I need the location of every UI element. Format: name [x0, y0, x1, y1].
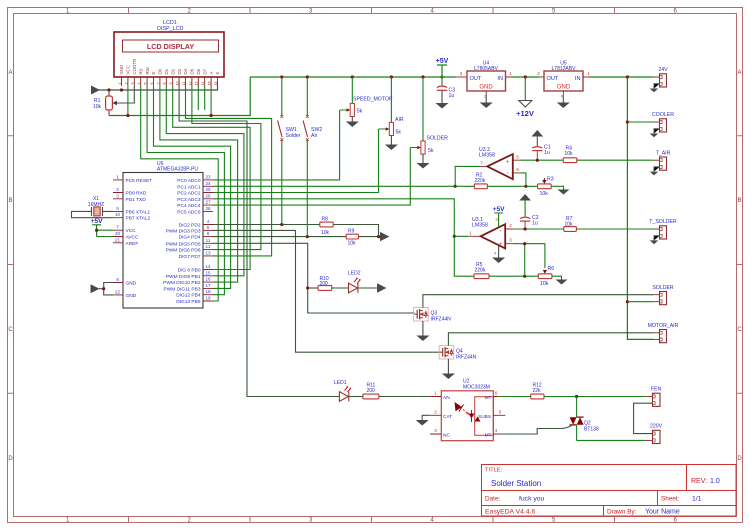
- svg-text:E: E: [151, 72, 156, 75]
- svg-text:CONTR: CONTR: [132, 59, 137, 75]
- wire LCD D0 to PB2: [160, 86, 238, 282]
- svg-text:D1: D1: [164, 68, 169, 74]
- svg-text:REV:: REV:: [691, 478, 707, 485]
- trimmer R6: [538, 266, 554, 287]
- svg-text:CAT: CAT: [443, 414, 452, 420]
- svg-text:R3: R3: [547, 177, 554, 183]
- potentiometer AIR: [379, 77, 404, 150]
- svg-text:D4: D4: [183, 68, 188, 74]
- wire PD3 row to Q4 gate: [213, 230, 441, 352]
- svg-text:1: 1: [434, 391, 437, 396]
- FETS: [414, 295, 653, 379]
- svg-text:SOLDER: SOLDER: [427, 136, 449, 142]
- svg-text:GND: GND: [479, 85, 493, 91]
- connector 24V: [650, 67, 668, 92]
- svg-text:10k: 10k: [565, 151, 574, 157]
- svg-text:AVCC: AVCC: [126, 235, 140, 241]
- connector COOLER: [650, 112, 675, 137]
- svg-text:DISP_LCD: DISP_LCD: [157, 26, 183, 32]
- wire PD2 row to R8: [213, 224, 320, 226]
- svg-text:SPEED_MOTOR: SPEED_MOTOR: [353, 97, 393, 103]
- ground rail under LCD (K/GND net): [93, 86, 218, 90]
- wire R3 to ground: [551, 186, 563, 189]
- svg-text:200: 200: [367, 388, 376, 394]
- svg-text:6: 6: [516, 167, 519, 172]
- svg-text:Drawn By:: Drawn By:: [607, 509, 637, 516]
- resistor R11: [363, 383, 379, 399]
- svg-text:3: 3: [131, 83, 135, 85]
- svg-text:18: 18: [205, 289, 211, 294]
- svg-text:Solder: Solder: [286, 133, 301, 139]
- svg-text:VCC: VCC: [126, 228, 137, 234]
- wire U2 MT6 to R12: [499, 396, 531, 398]
- svg-text:B: B: [8, 198, 12, 204]
- svg-text:L7805ABV: L7805ABV: [474, 66, 499, 72]
- svg-text:C: C: [8, 327, 13, 333]
- svg-text:PWM DIG6 PD6: PWM DIG6 PD6: [166, 248, 201, 254]
- svg-text:13: 13: [195, 82, 199, 86]
- LCD pin numbers: [118, 82, 218, 86]
- Q4 source to ground: [447, 359, 449, 374]
- node SW2 top: [306, 75, 309, 78]
- connector 220V: [646, 424, 663, 444]
- svg-text:LED1: LED1: [334, 380, 347, 386]
- wire A pin to +5V rail: [210, 86, 212, 116]
- node SOLDER top: [421, 75, 424, 78]
- svg-text:1: 1: [469, 230, 472, 235]
- OPAMPS: [453, 130, 653, 287]
- svg-text:200: 200: [320, 281, 329, 287]
- wire Q3 drain to SOLDER pin1: [423, 295, 653, 308]
- svg-text:2: 2: [124, 83, 128, 85]
- svg-text:23: 23: [205, 174, 211, 179]
- LCDBLOCK: [91, 20, 250, 117]
- svg-text:21: 21: [115, 237, 121, 242]
- svg-text:IRFZ44N: IRFZ44N: [456, 355, 477, 361]
- wire U4 IN to U5 OUT with +12V tap: [511, 76, 539, 78]
- svg-text:PWM DIG9 PB1: PWM DIG9 PB1: [166, 274, 201, 280]
- svg-text:PC4 ADC4: PC4 ADC4: [177, 203, 201, 209]
- svg-text:C: C: [737, 327, 742, 333]
- resistor R4: [563, 146, 577, 163]
- optocoupler U2 MOC3023M: [429, 379, 505, 441]
- svg-text:K: K: [215, 72, 220, 75]
- node: R1 top junction: [107, 88, 110, 91]
- svg-text:DIG7 PD7: DIG7 PD7: [179, 254, 201, 260]
- left pin names: [126, 178, 153, 299]
- pins left: [429, 397, 441, 435]
- wire LED1 to R11: [349, 396, 363, 398]
- Q3 source to ground: [422, 321, 424, 336]
- svg-text:1u: 1u: [532, 221, 538, 227]
- svg-text:LED2: LED2: [348, 271, 361, 277]
- svg-text:2: 2: [537, 71, 540, 76]
- svg-text:Solder Station: Solder Station: [491, 479, 541, 488]
- svg-text:PWM DIG11 PB3: PWM DIG11 PB3: [164, 286, 201, 292]
- right pin numbers: [205, 174, 211, 300]
- node: LCD pin1 junction: [120, 88, 123, 91]
- svg-text:PC5 ADC5: PC5 ADC5: [177, 209, 201, 215]
- svg-text:15: 15: [205, 270, 211, 275]
- svg-text:27: 27: [205, 200, 211, 205]
- ground arrow (MCU): [91, 284, 100, 293]
- svg-text:13: 13: [205, 250, 211, 255]
- +12V net flag: [516, 77, 534, 118]
- svg-text:BT138: BT138: [584, 427, 599, 433]
- wire to SOLDER pin2: [627, 301, 653, 303]
- resistor R9: [346, 228, 358, 246]
- svg-text:25: 25: [205, 187, 211, 192]
- crystal X1: [88, 196, 104, 216]
- triac Q2 BT138: [499, 397, 599, 441]
- IC U6 ATMEGA328P-PU body: [123, 173, 203, 309]
- ruler tick bottom: [129, 517, 615, 523]
- svg-text:VCC: VCC: [126, 65, 131, 74]
- wire node up to pin6: [519, 173, 526, 186]
- ruler tick left: [8, 136, 14, 394]
- svg-text:PC1 ADC1: PC1 ADC1: [177, 184, 201, 190]
- svg-text:+: +: [506, 160, 510, 166]
- svg-text:GND: GND: [126, 281, 137, 287]
- svg-text:RW: RW: [145, 66, 150, 74]
- internal triac: [469, 410, 481, 422]
- svg-text:20: 20: [115, 231, 121, 236]
- svg-text:1: 1: [118, 83, 122, 85]
- svg-text:10k: 10k: [540, 281, 549, 287]
- svg-text:3: 3: [460, 71, 463, 76]
- svg-text:PC2 ADC2: PC2 ADC2: [177, 191, 201, 197]
- svg-text:RS: RS: [138, 68, 143, 74]
- resistor R8: [320, 216, 333, 236]
- svg-text:4: 4: [495, 428, 498, 433]
- wire LCD D4 to PD7: [186, 86, 272, 256]
- svg-text:14: 14: [201, 82, 205, 86]
- wire to COOLER: [627, 121, 653, 123]
- svg-text:D6: D6: [196, 68, 201, 74]
- svg-text:Your Name: Your Name: [645, 509, 680, 516]
- +5V flag and capacitor C3: [436, 58, 456, 109]
- svg-text:D7: D7: [202, 68, 207, 74]
- svg-text:PB6 XTAL1: PB6 XTAL1: [126, 209, 151, 215]
- svg-text:1: 1: [509, 71, 512, 76]
- svg-text:8: 8: [163, 83, 167, 85]
- BUS: [141, 86, 456, 397]
- svg-text:10k: 10k: [93, 104, 102, 110]
- svg-text:AIR: AIR: [395, 117, 404, 123]
- svg-text:3: 3: [509, 238, 512, 243]
- svg-text:B: B: [737, 198, 741, 204]
- U2 CAT to ground: [422, 415, 429, 420]
- wire LCD RS to PB5: [141, 86, 219, 301]
- svg-text:OUT: OUT: [470, 76, 482, 82]
- svg-text:DIG13 PB5: DIG13 PB5: [176, 299, 201, 305]
- svg-text:DIG12 PB4: DIG12 PB4: [176, 293, 201, 299]
- svg-text:6: 6: [495, 391, 498, 396]
- svg-text:24: 24: [205, 181, 211, 186]
- op-amp U3.2 LM358 (mirrored, output left): [479, 147, 519, 179]
- wire ADC0 row to SPEED_MOTOR wiper: [213, 110, 340, 180]
- svg-text:IRFZ44N: IRFZ44N: [431, 317, 452, 323]
- ground arrow left of rail: [91, 86, 100, 95]
- svg-text:+: +: [499, 242, 503, 248]
- svg-text:1: 1: [116, 174, 119, 179]
- svg-text:2: 2: [434, 409, 437, 414]
- svg-text:5: 5: [207, 225, 210, 230]
- wire Q4 drain to MOTOR_AIR pin1: [448, 333, 653, 346]
- svg-text:A: A: [737, 70, 741, 76]
- resistor R2: [474, 173, 487, 189]
- svg-text:1u: 1u: [544, 150, 550, 156]
- LCD pin stubs: [122, 77, 218, 86]
- wire R11 to U2 pin1: [379, 396, 429, 398]
- svg-text:9: 9: [116, 206, 119, 211]
- svg-text:MT: MT: [485, 433, 492, 439]
- connector SOLDER: [652, 285, 674, 305]
- +5V rail under LCD: [109, 77, 250, 116]
- svg-text:TITLE:: TITLE:: [485, 468, 503, 474]
- svg-text:Date:: Date:: [485, 496, 500, 503]
- svg-text:LM358: LM358: [479, 153, 495, 159]
- svg-text:1.0: 1.0: [710, 478, 720, 485]
- svg-text:DIG4 PD4: DIG4 PD4: [179, 235, 201, 241]
- svg-text:Sheet:: Sheet:: [661, 496, 680, 503]
- wire R6 to ground: [552, 276, 562, 279]
- wire LCD RW to PB4: [147, 86, 224, 295]
- node SW1/PD2/R8: [280, 223, 283, 226]
- svg-text:IN: IN: [497, 76, 503, 82]
- svg-text:8: 8: [116, 277, 119, 282]
- node SW2/PD4/R9: [306, 235, 309, 238]
- svg-text:IN: IN: [575, 76, 581, 82]
- svg-text:5: 5: [144, 83, 148, 85]
- svg-text:5k: 5k: [357, 109, 363, 115]
- LCD1 display module: [114, 20, 224, 77]
- wire PD4 row to R9: [213, 236, 346, 238]
- svg-text:24V: 24V: [658, 67, 668, 73]
- svg-text:10k: 10k: [348, 241, 357, 247]
- regulator U5 L7812ABV: [537, 61, 590, 109]
- svg-text:ATMEGA328P-PU: ATMEGA328P-PU: [157, 167, 198, 173]
- svg-text:5: 5: [499, 409, 502, 414]
- pins right: [493, 397, 505, 435]
- wire output node down to R5: [454, 236, 474, 276]
- svg-text:3: 3: [434, 428, 437, 433]
- resistor R5: [474, 262, 489, 279]
- svg-text:D5: D5: [190, 68, 195, 74]
- wire LCD D6 stub: [197, 86, 199, 110]
- svg-text:10k: 10k: [321, 230, 330, 236]
- right pin names: [163, 178, 201, 305]
- svg-text:11: 11: [206, 238, 211, 243]
- svg-text:OUT: OUT: [547, 76, 559, 82]
- node SPEED top: [351, 75, 354, 78]
- internal LED: [455, 402, 470, 415]
- svg-text:15: 15: [208, 82, 212, 86]
- svg-text:1: 1: [587, 71, 590, 76]
- ruler tick top: [129, 8, 615, 14]
- node U3.2 out/R2: [454, 185, 457, 188]
- svg-text:220k: 220k: [475, 268, 486, 274]
- svg-text:FEN: FEN: [651, 387, 662, 393]
- svg-text:220V: 220V: [650, 424, 663, 430]
- wire R8 right to R9 node: [333, 225, 378, 237]
- +5V flag for VCC/AVCC: [91, 218, 113, 237]
- svg-text:220k: 220k: [475, 178, 486, 184]
- svg-text:GND: GND: [126, 293, 137, 299]
- wire R9 right to gnd arrow: [358, 236, 380, 238]
- wire LCD D1 to PB1: [166, 86, 244, 276]
- wire LCD D7 stub: [204, 86, 206, 110]
- svg-text:D3: D3: [177, 68, 182, 74]
- switch SW2: [303, 77, 322, 237]
- svg-text:11: 11: [182, 82, 186, 86]
- svg-text:D0: D0: [158, 68, 163, 74]
- OPTO: [334, 379, 646, 441]
- svg-text:R9: R9: [348, 228, 355, 234]
- crystal X1 loop wires: [72, 211, 114, 217]
- wire node up to pin3 row: [513, 244, 545, 277]
- right pin stubs: [203, 180, 213, 301]
- wire VCC pin to +5V rail: [127, 86, 129, 116]
- svg-text:12: 12: [205, 244, 211, 249]
- gate lead: [499, 426, 572, 435]
- svg-text:2: 2: [116, 187, 119, 192]
- capacitor C1 with +12V arrow: [532, 130, 551, 160]
- svg-text:+5V: +5V: [493, 206, 506, 213]
- svg-text:10k: 10k: [540, 191, 549, 197]
- trimmer R3: [538, 177, 554, 198]
- svg-text:16MHZ: 16MHZ: [88, 202, 104, 208]
- svg-text:GND: GND: [557, 85, 571, 91]
- svg-text:3: 3: [116, 193, 119, 198]
- MOSFET Q3 IRFZ44N: [414, 308, 451, 323]
- svg-text:T_AIR: T_AIR: [656, 150, 671, 156]
- svg-text:PWM DIG5 PD5: PWM DIG5 PD5: [166, 241, 201, 247]
- svg-text:28: 28: [205, 206, 211, 211]
- GND loop pins 8/22: [104, 283, 113, 295]
- svg-text:MOC3023M: MOC3023M: [463, 384, 490, 390]
- LCD pin names (vertical): [119, 59, 220, 75]
- svg-text:16: 16: [214, 82, 218, 86]
- resistor R7: [564, 216, 577, 231]
- svg-text:22k: 22k: [533, 388, 542, 394]
- wire LCD E to PB3: [154, 86, 231, 288]
- svg-text:5k: 5k: [428, 148, 434, 154]
- svg-text:26: 26: [205, 193, 211, 198]
- svg-text:10: 10: [115, 212, 121, 217]
- ruler tick right: [737, 136, 743, 394]
- svg-text:4: 4: [137, 83, 141, 85]
- wire LCD D5 to PD6: [192, 86, 261, 250]
- wire R1 wiper to LCD CONTR: [117, 86, 134, 103]
- svg-text:6: 6: [207, 231, 210, 236]
- 24V supply vertical: [627, 77, 653, 339]
- resistor R12: [531, 383, 544, 399]
- node U3.1 output: [453, 235, 456, 238]
- CONNECTORS: [634, 67, 679, 444]
- +5V rail top: [250, 76, 456, 78]
- regulator U4 L7805ABV: [456, 61, 512, 109]
- svg-text:PD0 RXD: PD0 RXD: [126, 191, 147, 197]
- MCU: [72, 161, 214, 308]
- svg-text:1u: 1u: [449, 93, 455, 99]
- wire pin5 row through C1 node to R4: [519, 159, 563, 161]
- svg-text:6: 6: [150, 83, 154, 85]
- svg-text:5k: 5k: [396, 130, 402, 136]
- capacitor C2 with +12V arrow: [519, 194, 538, 229]
- MOSFET Q4 IRFZ44N: [439, 346, 476, 361]
- svg-text:PWM DIG3 PD3: PWM DIG3 PD3: [166, 228, 201, 234]
- wire R12 to FEN pin1: [544, 396, 646, 398]
- svg-text:R6: R6: [548, 266, 555, 272]
- svg-text:D2: D2: [170, 68, 175, 74]
- node AIR top: [390, 75, 393, 78]
- wire ADC2 row to AIR wiper: [213, 129, 379, 193]
- wire R2 to inverting node: [487, 185, 537, 187]
- svg-text:AREF: AREF: [126, 241, 139, 247]
- connector FEN: [634, 387, 662, 434]
- TITLEBLOCK: [482, 465, 737, 517]
- svg-text:7: 7: [156, 83, 160, 85]
- svg-text:fuck you: fuck you: [519, 496, 545, 503]
- svg-text:EasyEDA V4.4.6: EasyEDA V4.4.6: [485, 509, 535, 516]
- svg-text:L7812ABV: L7812ABV: [552, 66, 577, 72]
- ground arrow right (LED2): [377, 283, 387, 292]
- wire PD5 row to Q3 gate: [213, 243, 415, 313]
- svg-text:GND: GND: [119, 65, 124, 75]
- wire FEN pin2 to 220V pin1: [634, 403, 653, 433]
- wire node to R2: [455, 185, 474, 187]
- svg-text:AN: AN: [443, 395, 450, 401]
- ground arrow right (R9 net): [380, 232, 390, 241]
- svg-text:NC: NC: [443, 433, 450, 439]
- svg-text:MT: MT: [485, 395, 492, 401]
- potentiometer R1: [93, 90, 118, 116]
- pin 4 to ground: [498, 245, 500, 257]
- left pin stubs: [113, 180, 123, 295]
- svg-text:LM358: LM358: [472, 223, 488, 229]
- svg-text:Air: Air: [311, 133, 318, 139]
- potentiometer SPEED_MOTOR: [340, 77, 393, 127]
- svg-text:LCD DISPLAY: LCD DISPLAY: [147, 42, 194, 51]
- svg-text:2: 2: [509, 223, 512, 228]
- svg-text:22: 22: [115, 289, 121, 294]
- wire LCD D2 to PB0: [173, 86, 250, 270]
- svg-text:SUBS: SUBS: [478, 414, 491, 420]
- LED2 row: R10 + LED2 + gnd arrow: [308, 271, 387, 293]
- svg-text:MOTOR_AIR: MOTOR_AIR: [648, 323, 679, 329]
- svg-text:A: A: [8, 70, 12, 76]
- svg-text:PB7 XTAL2: PB7 XTAL2: [126, 216, 151, 222]
- wire R4 to T_AIR: [577, 159, 653, 161]
- svg-text:SOLDER: SOLDER: [652, 285, 674, 291]
- svg-text:PD1 TXD: PD1 TXD: [126, 197, 147, 203]
- wire ADC3 row to U3.1: [213, 199, 454, 237]
- wire R7 to T_SOLDER: [576, 228, 653, 230]
- svg-text:PWM DIG10 PB2: PWM DIG10 PB2: [163, 280, 201, 286]
- svg-text:1/1: 1/1: [692, 496, 702, 503]
- svg-text:+5V: +5V: [436, 58, 449, 65]
- svg-text:5: 5: [516, 154, 519, 159]
- switch SW1: [278, 77, 301, 225]
- svg-text:4: 4: [207, 219, 210, 224]
- connector MOTOR_AIR: [648, 323, 679, 343]
- wire R5 to node: [489, 275, 538, 277]
- svg-text:T_SOLDER: T_SOLDER: [649, 219, 677, 225]
- svg-text:DIG 8 PB0: DIG 8 PB0: [178, 268, 201, 274]
- wire LCD D3 to LED1 column: [179, 86, 339, 397]
- svg-text:10k: 10k: [565, 221, 574, 227]
